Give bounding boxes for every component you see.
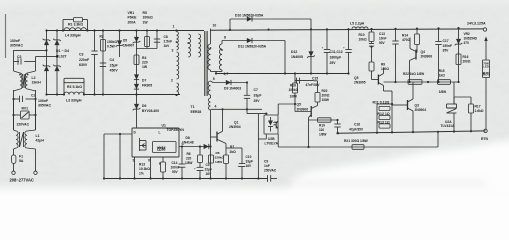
svg-text:R12 1Ω: R12 1Ω: [378, 112, 390, 116]
svg-text:L5 2.2μH: L5 2.2μH: [350, 22, 365, 26]
svg-text:150nF: 150nF: [443, 44, 453, 48]
svg-text:100kΩ: 100kΩ: [289, 88, 299, 92]
svg-text:100nF: 100nF: [38, 99, 49, 103]
svg-text:1800μF: 1800μF: [330, 56, 342, 60]
svg-text:C5: C5: [206, 163, 210, 167]
svg-text:C17: C17: [443, 39, 449, 43]
svg-text:C1: C1: [31, 94, 35, 98]
svg-text:LTV817A: LTV817A: [265, 141, 279, 145]
svg-text:305VAC: 305VAC: [38, 104, 51, 108]
svg-text:1N4148: 1N4148: [182, 140, 194, 144]
svg-text:EER28: EER28: [191, 110, 202, 114]
svg-text:330kΩ: 330kΩ: [215, 156, 225, 160]
svg-text:D5: D5: [123, 39, 127, 43]
svg-text:1W: 1W: [143, 20, 149, 24]
svg-text:C3: C3: [79, 53, 84, 57]
svg-text:Q5: Q5: [297, 103, 302, 107]
svg-text:1/8W: 1/8W: [290, 94, 297, 98]
svg-text:D1 ~ D4: D1 ~ D4: [56, 49, 69, 53]
svg-text:16V: 16V: [246, 164, 253, 168]
svg-text:100nF: 100nF: [10, 39, 21, 43]
svg-text:控制: 控制: [157, 145, 165, 152]
svg-text:C10: C10: [246, 155, 252, 159]
svg-text:C2: C2: [17, 55, 22, 59]
svg-text:C15: C15: [312, 76, 318, 80]
svg-text:25V: 25V: [254, 99, 261, 103]
svg-text:T1: T1: [191, 105, 195, 109]
svg-text:10kΩ: 10kΩ: [359, 37, 368, 41]
svg-text:1W: 1W: [142, 65, 148, 69]
svg-text:R22 1kΩ 1/8W: R22 1kΩ 1/8W: [403, 72, 424, 76]
svg-text:100kΩ: 100kΩ: [107, 40, 117, 44]
svg-text:C9: C9: [264, 160, 268, 164]
svg-text:R15: R15: [439, 69, 445, 73]
svg-text:C11,C12: C11,C12: [330, 50, 343, 54]
svg-text:+: +: [238, 164, 240, 168]
svg-text:C7: C7: [254, 88, 258, 92]
svg-text:R17: R17: [475, 105, 481, 109]
svg-text:R14: R14: [402, 34, 408, 38]
svg-text:0.5W: 0.5W: [107, 45, 116, 49]
svg-text:19mH: 19mH: [32, 80, 42, 84]
svg-text:R3 5.1kΩ: R3 5.1kΩ: [67, 85, 82, 89]
svg-text:D7: D7: [142, 79, 146, 83]
svg-text:200A: 200A: [128, 20, 137, 24]
svg-text:Q1: Q1: [234, 121, 239, 125]
svg-text:+: +: [194, 167, 196, 171]
svg-text:R13 1Ω: R13 1Ω: [378, 121, 390, 125]
svg-text:RTN: RTN: [481, 137, 489, 141]
svg-text:1N4007: 1N4007: [123, 43, 134, 47]
svg-text:RL027: RL027: [56, 55, 67, 59]
svg-text:R13: R13: [139, 163, 145, 167]
svg-text:C8: C8: [164, 35, 168, 39]
svg-text:16V: 16V: [206, 172, 213, 176]
svg-text:200Ω: 200Ω: [463, 59, 471, 63]
svg-text:U2A: U2A: [445, 120, 452, 124]
svg-text:TLV431A: TLV431A: [441, 124, 455, 128]
svg-text:R9: R9: [381, 63, 385, 67]
svg-text:15μF: 15μF: [110, 63, 119, 67]
svg-text:L4 330μH: L4 330μH: [65, 33, 81, 37]
svg-text:Q3: Q3: [415, 104, 420, 108]
svg-text:2N3906: 2N3906: [421, 55, 433, 59]
svg-text:L: L: [159, 131, 161, 135]
svg-text:1/8W: 1/8W: [319, 132, 326, 136]
svg-text:1/8W: 1/8W: [215, 160, 222, 164]
svg-text:C13: C13: [379, 32, 385, 36]
svg-text:U2B: U2B: [268, 137, 275, 141]
svg-text:220: 220: [142, 61, 148, 65]
svg-text:FR305: FR305: [142, 83, 152, 87]
svg-text:R11 0.13Ω: R11 0.13Ω: [373, 100, 390, 104]
svg-text:208~277VAC: 208~277VAC: [10, 178, 34, 183]
svg-text:1kV: 1kV: [164, 44, 171, 48]
svg-text:R7: R7: [230, 145, 234, 149]
svg-text:1/8W: 1/8W: [322, 98, 329, 102]
svg-text:LED: LED: [483, 65, 488, 69]
svg-text:系列: 系列: [482, 71, 490, 76]
svg-text:U1: U1: [162, 123, 166, 127]
svg-text:VR2: VR2: [464, 32, 470, 36]
svg-text:220: 220: [186, 156, 192, 160]
svg-text:D10 1N5820-035A: D10 1N5820-035A: [235, 14, 264, 18]
svg-text:Q4: Q4: [421, 50, 426, 54]
svg-text:R20: R20: [322, 89, 328, 93]
svg-text:10nF: 10nF: [379, 36, 386, 40]
svg-text:42μH: 42μH: [36, 138, 45, 142]
svg-text:250VAC: 250VAC: [264, 169, 277, 173]
svg-text:4: 4: [215, 105, 217, 109]
svg-text:2N3904: 2N3904: [415, 108, 427, 112]
svg-text:R10: R10: [359, 33, 365, 37]
svg-text:1nF: 1nF: [264, 164, 270, 168]
svg-text:5: 5: [213, 77, 215, 81]
svg-text:100nF: 100nF: [171, 166, 180, 170]
svg-text:10.3kΩ: 10.3kΩ: [139, 167, 150, 171]
svg-text:110: 110: [319, 128, 324, 132]
svg-text:C16: C16: [354, 122, 360, 126]
svg-text:P6KE: P6KE: [128, 16, 138, 20]
svg-text:1/8W: 1/8W: [185, 161, 192, 165]
svg-text:R2: R2: [100, 35, 104, 39]
svg-text:Q5: Q5: [354, 76, 359, 80]
svg-text:33μF: 33μF: [246, 159, 253, 163]
svg-text:1/8W: 1/8W: [439, 90, 446, 94]
svg-text:1.6kΩ: 1.6kΩ: [475, 109, 484, 113]
svg-text:3: 3: [172, 49, 174, 53]
svg-text:D11 1N5820-035A: D11 1N5820-035A: [238, 45, 267, 49]
svg-text:D12: D12: [291, 50, 297, 54]
svg-text:C4: C4: [110, 58, 115, 62]
svg-text:+: +: [322, 46, 324, 50]
svg-text:220nF: 220nF: [79, 58, 90, 62]
svg-text:10: 10: [213, 24, 217, 28]
svg-text:450V: 450V: [110, 69, 119, 73]
svg-text:R18: R18: [290, 83, 296, 87]
svg-text:R16: R16: [463, 55, 469, 59]
svg-text:L1: L1: [36, 134, 40, 138]
svg-text:R1 3.3kΩ: R1 3.3kΩ: [68, 23, 83, 27]
svg-text:L3 330μH: L3 330μH: [66, 99, 82, 103]
svg-text:D8: D8: [186, 136, 190, 140]
svg-text:1: 1: [173, 25, 175, 29]
svg-text:TOP250YN: TOP250YN: [167, 128, 185, 132]
svg-text:630V: 630V: [79, 63, 88, 67]
svg-text:D6: D6: [142, 104, 146, 108]
svg-text:R8: R8: [216, 151, 220, 155]
svg-text:50V: 50V: [172, 170, 179, 174]
svg-text:35V: 35V: [443, 49, 450, 53]
svg-text:BYV26-400: BYV26-400: [142, 109, 159, 113]
svg-text:2N3906: 2N3906: [297, 107, 309, 111]
svg-text:VR1: VR1: [128, 11, 135, 15]
svg-text:RV1: RV1: [22, 107, 29, 111]
svg-text:1N5254D: 1N5254D: [464, 36, 478, 40]
svg-text:L2: L2: [32, 76, 36, 80]
svg-text:50V: 50V: [379, 41, 386, 45]
svg-text:47μF/35V: 47μF/35V: [349, 127, 364, 131]
svg-text:24V,3.125A: 24V,3.125A: [467, 21, 486, 25]
svg-text:R19: R19: [319, 124, 325, 128]
svg-text:1N4005: 1N4005: [291, 55, 303, 59]
svg-text:1kΩ: 1kΩ: [439, 73, 446, 77]
svg-text:2N3905: 2N3905: [354, 81, 366, 85]
svg-text:8: 8: [224, 36, 226, 40]
svg-text:100kΩ: 100kΩ: [143, 16, 154, 20]
svg-text:200Ω: 200Ω: [322, 93, 330, 97]
svg-text:2N3904: 2N3904: [229, 125, 241, 129]
svg-text:37V: 37V: [464, 41, 471, 45]
svg-text:47nF/35V: 47nF/35V: [306, 83, 321, 87]
svg-text:150Ω: 150Ω: [381, 67, 389, 71]
svg-text:R21 300Ω 1/8W: R21 300Ω 1/8W: [344, 139, 369, 143]
svg-text:R4: R4: [142, 56, 146, 60]
svg-text:25V: 25V: [330, 61, 337, 65]
svg-text:33μF: 33μF: [254, 94, 262, 98]
svg-text:D9 1N4003: D9 1N4003: [224, 87, 241, 91]
svg-text:220VAC: 220VAC: [17, 123, 30, 127]
svg-text:R6: R6: [187, 152, 191, 156]
svg-text:C14: C14: [172, 161, 178, 165]
svg-text:470Ω: 470Ω: [402, 38, 411, 42]
svg-text:R5: R5: [143, 11, 147, 15]
svg-text:2kΩ: 2kΩ: [230, 150, 237, 154]
svg-text:5A: 5A: [19, 159, 24, 163]
svg-text:305VAC: 305VAC: [10, 44, 23, 48]
svg-text:2.5nF: 2.5nF: [164, 40, 173, 44]
svg-text:2: 2: [171, 79, 173, 83]
svg-text:+: +: [343, 46, 345, 50]
svg-text:1%: 1%: [139, 172, 144, 176]
svg-text:F1: F1: [19, 155, 23, 159]
